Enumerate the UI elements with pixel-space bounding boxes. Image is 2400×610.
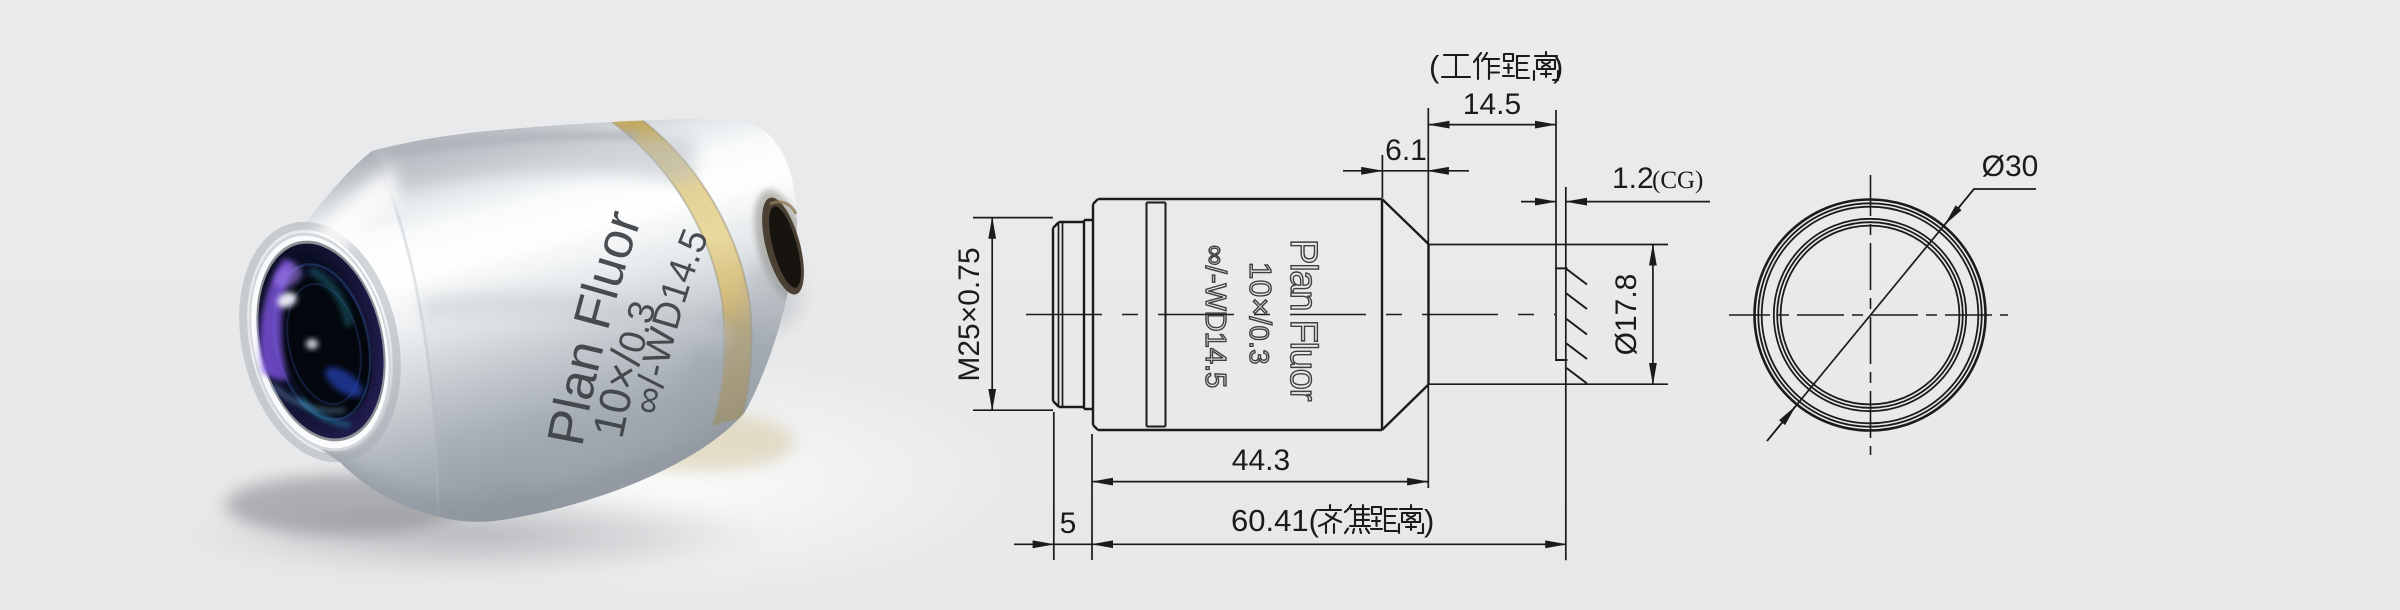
cone radiating bright streak <box>300 165 400 282</box>
chinese labels drawn as strokes <box>1231 49 1563 538</box>
taper <box>1382 199 1429 430</box>
作 <box>1474 53 1499 79</box>
svg-text:6.1: 6.1 <box>1385 134 1427 167</box>
dark ring behind front ring <box>221 210 418 473</box>
M25 dimension <box>973 218 1053 411</box>
objective body silhouette <box>251 119 797 522</box>
svg-text:Ø17.8: Ø17.8 <box>1610 274 1643 356</box>
centerline <box>1026 314 1556 316</box>
svg-text:M25×0.75: M25×0.75 <box>953 247 986 381</box>
svg-text:): ) <box>1424 503 1434 538</box>
svg-text:10×/0.3: 10×/0.3 <box>1243 262 1278 365</box>
front face <box>1427 244 1429 385</box>
齐 <box>1319 505 1341 533</box>
gray reflection streak along upper cylinder <box>385 134 695 190</box>
工 <box>1442 55 1470 77</box>
faint dark streak below top edge <box>390 131 638 158</box>
(工作距离) parens <box>1429 49 1563 84</box>
焦 <box>1345 505 1370 533</box>
44.3 dimension <box>1054 412 1092 560</box>
body <box>1093 199 1382 430</box>
mid gray streak <box>420 292 730 352</box>
gold band <box>290 120 820 522</box>
thread M25 body <box>1053 222 1084 407</box>
svg-text:Ø30: Ø30 <box>1982 150 2039 183</box>
dark reflection along bottom silhouette <box>430 420 735 522</box>
离 <box>1534 52 1558 80</box>
距 <box>1503 54 1529 78</box>
diagonal dimension <box>1767 189 2036 441</box>
14.5 dimension <box>1427 108 1429 488</box>
离 <box>1399 505 1423 533</box>
svg-text:60.41(: 60.41( <box>1231 503 1320 538</box>
side view texts <box>953 88 1703 540</box>
svg-text:∞/-WD14.5: ∞/-WD14.5 <box>1199 245 1231 388</box>
cone region brighter overlay <box>251 151 438 515</box>
1.2 CG dimension <box>1521 201 1556 203</box>
cone-body junction groove <box>372 151 438 515</box>
svg-text:(: ( <box>1429 49 1440 84</box>
hatch <box>1567 269 1588 384</box>
svg-text:(CG): (CG) <box>1652 167 1703 194</box>
svg-text:1.2: 1.2 <box>1612 162 1654 195</box>
cover glass <box>1555 110 1557 360</box>
cast shadow <box>180 490 780 580</box>
svg-text:5: 5 <box>1060 507 1077 540</box>
6.1 dimension <box>1381 155 1383 198</box>
svg-text:Plan Fluor: Plan Fluor <box>1282 239 1324 402</box>
floor glow <box>340 360 1020 600</box>
svg-text:14.5: 14.5 <box>1463 88 1521 121</box>
lens <box>240 231 401 451</box>
under-cap shading <box>744 184 820 308</box>
collar <box>1084 220 1093 409</box>
ring band <box>1147 203 1166 427</box>
dia 17.8 extension lines <box>1429 245 1669 385</box>
dia 17.8 dimension <box>1652 245 1654 385</box>
cone lower gray wedge <box>290 430 440 520</box>
距 <box>1371 507 1397 531</box>
engraved text on drawing body (rotated 90, outline style) <box>1199 239 1324 402</box>
60.41( text <box>1231 503 1434 538</box>
centerlines <box>1729 314 2008 316</box>
front ring <box>229 219 411 466</box>
back cap <box>743 260 803 332</box>
5 + 60.41 dimension <box>1014 543 1054 545</box>
svg-text:44.3: 44.3 <box>1232 444 1290 477</box>
